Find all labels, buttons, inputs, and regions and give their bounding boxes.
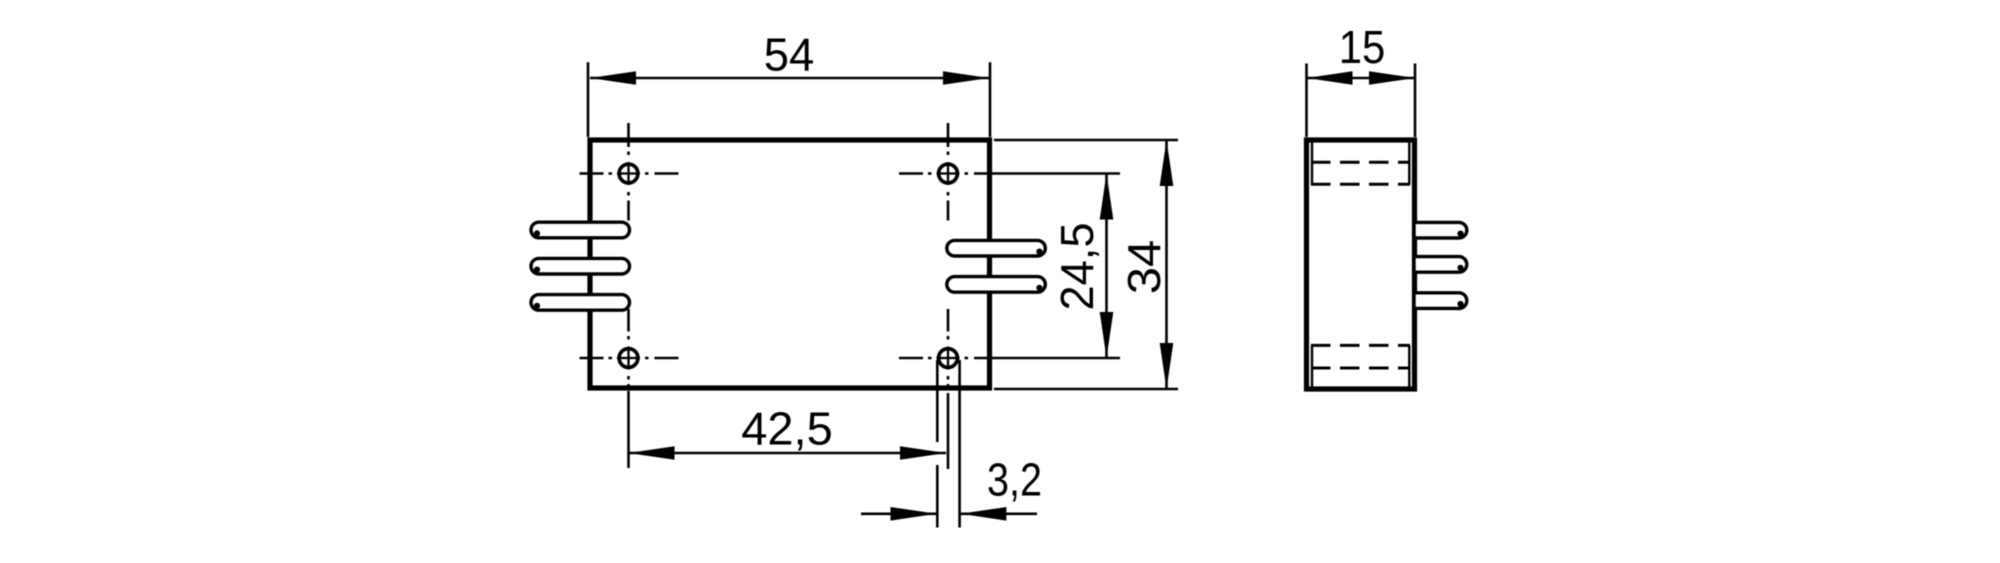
dimension 54: left arrowhead — [590, 71, 636, 85]
dimension 54: dimension line — [590, 77, 989, 80]
dimension 3,2: left arrow tail line — [861, 512, 936, 515]
right pin 1 — [947, 240, 1046, 256]
center line horizontal, hole top-right + 24,5 top extension line — [899, 172, 1120, 175]
dimension 3,2: left arrowhead — [891, 507, 937, 521]
dimension 24,5: top arrowhead — [1100, 174, 1114, 220]
dimension 15: right arrowhead — [1369, 71, 1415, 85]
side view body outline — [1307, 140, 1415, 389]
side view hidden dashed line 1 — [1311, 161, 1410, 164]
side view hidden dashed line 4 — [1311, 367, 1410, 370]
center line horizontal, hole bottom-left — [580, 357, 679, 360]
left pin 1 — [531, 222, 630, 238]
left pin 2 — [531, 258, 630, 274]
dimension 15: left arrowhead — [1307, 71, 1353, 85]
dimension 34: top extension line — [994, 139, 1178, 142]
dimension 34: top arrowhead — [1160, 140, 1174, 186]
center line vertical, hole bottom-left — [627, 309, 630, 388]
dimension 34: bottom extension line — [994, 388, 1178, 391]
side view pin 1 — [1414, 222, 1467, 238]
side view inner line bottom-right — [1408, 345, 1410, 387]
side view hidden dashed line 2 — [1311, 183, 1410, 186]
right pin 2 — [947, 277, 1046, 293]
center line horizontal, hole top-left — [580, 172, 679, 175]
svg-text:34: 34 — [1118, 240, 1170, 295]
svg-text:3,2: 3,2 — [987, 454, 1042, 506]
dimension 3,2: right arrowhead — [960, 507, 1006, 521]
dimension 42,5: left arrowhead — [629, 446, 675, 460]
mounting hole top-left — [617, 162, 640, 185]
hole diameter tangent extension line right (3,2) — [958, 360, 961, 528]
side view inner line top-right — [1408, 142, 1410, 185]
dimension 42,5: dimension line — [629, 452, 947, 455]
dimension 42,5: right arrowhead — [900, 446, 946, 460]
front view body outline — [590, 140, 990, 388]
dimension 54: extension lines — [588, 62, 990, 137]
hole diameter tangent extension line left (3,2) — [936, 360, 939, 528]
svg-text:24,5: 24,5 — [1051, 223, 1103, 311]
side view inner line bottom-left — [1311, 345, 1313, 387]
svg-text:42,5: 42,5 — [741, 403, 833, 455]
dimension 15: extension lines — [1307, 64, 1416, 138]
center line vertical, hole bottom-right — [947, 309, 950, 469]
dimension 34: bottom arrowhead — [1160, 343, 1174, 389]
side view pin 3 — [1414, 293, 1467, 309]
dimension 15: dimension line — [1307, 77, 1416, 80]
dimension 24,5: dimension line — [1105, 174, 1108, 359]
mounting hole bottom-left — [617, 347, 640, 370]
left pin 3 — [531, 295, 630, 311]
dimension 34: dimension line — [1165, 140, 1168, 389]
mounting hole bottom-right — [937, 347, 960, 370]
svg-text:15: 15 — [1339, 21, 1386, 73]
dimension 54: right arrowhead — [943, 71, 989, 85]
svg-text:54: 54 — [764, 29, 815, 81]
dimension 42,5: left extension line — [627, 391, 630, 468]
center line vertical, hole top-left — [627, 123, 630, 221]
side view pin 2 — [1414, 257, 1467, 273]
side view inner line top-left — [1311, 142, 1313, 185]
dimension 24,5: bottom arrowhead — [1100, 312, 1114, 358]
center line horizontal, hole bottom-right + 24,5 bottom extension line — [899, 357, 1120, 360]
side view hidden dashed line 3 — [1311, 344, 1410, 347]
mounting hole top-right — [937, 162, 960, 185]
center line vertical, hole top-right — [947, 123, 950, 221]
dimension 3,2: right arrow tail line — [960, 512, 1037, 515]
